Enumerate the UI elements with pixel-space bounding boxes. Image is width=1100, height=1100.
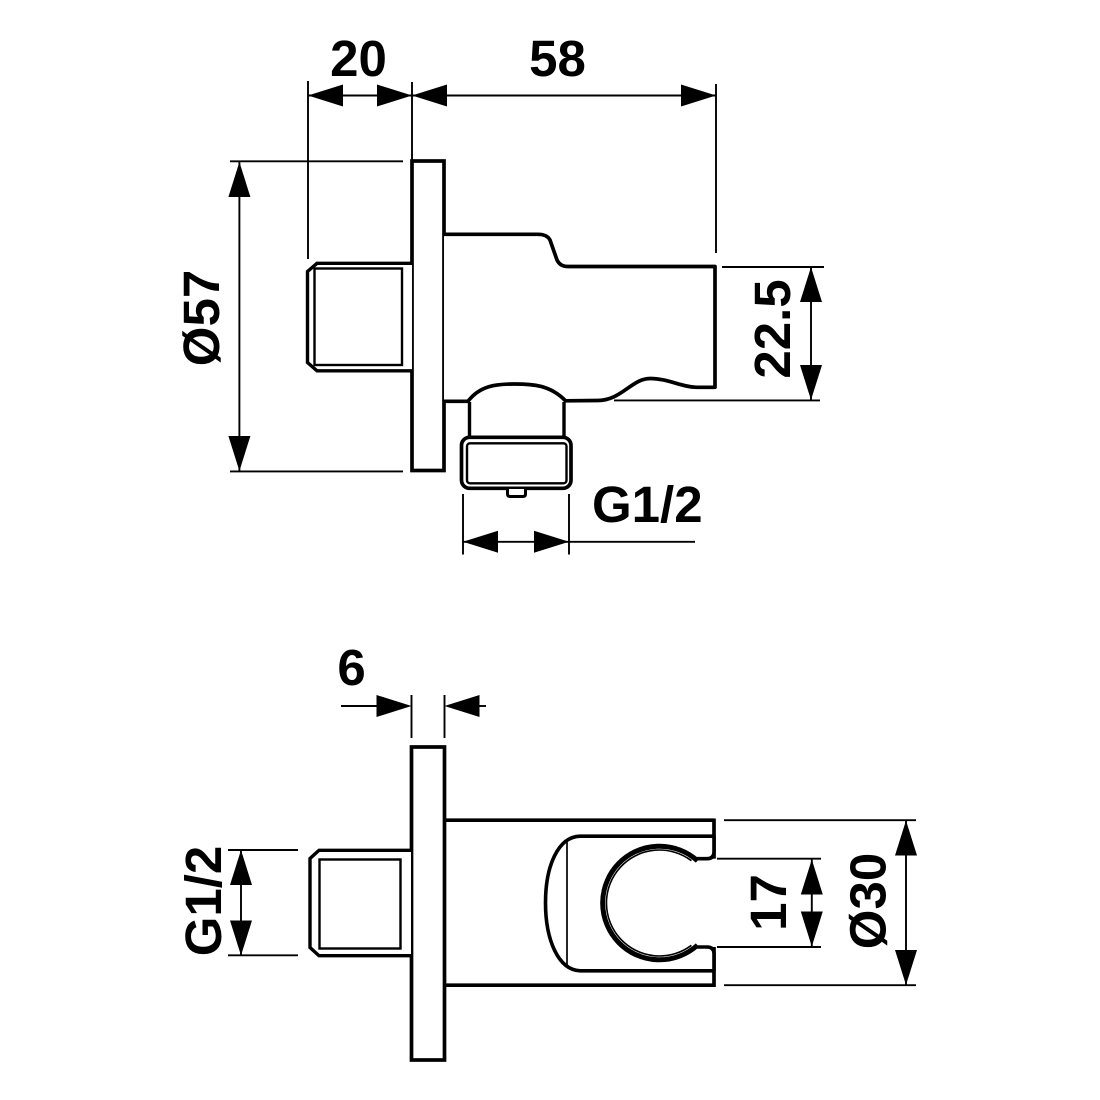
extension line left of 20 [307, 81, 309, 259]
wall plate side view [412, 161, 444, 471]
outlet nut inner [467, 443, 567, 483]
outlet boss left side [468, 402, 471, 437]
outlet nipple [508, 489, 526, 497]
wall plate front view [412, 747, 445, 1060]
extension line bottom of plate [230, 470, 403, 472]
holder back cap facet line [566, 842, 568, 965]
threaded inlet spigot front view outer [310, 850, 411, 955]
extension line left of plate [411, 695, 413, 738]
dimension G1/2 line bottom view [240, 850, 242, 956]
svg-text:G1/2: G1/2 [592, 476, 703, 533]
svg-text:Ø30: Ø30 [840, 853, 897, 949]
extension line top of plate [230, 160, 403, 162]
dimension 22.5 line [810, 267, 812, 400]
extension line bottom of 22.5 [614, 399, 820, 401]
svg-text:58: 58 [529, 30, 586, 87]
extension line bottom of holder gap [717, 946, 821, 948]
extension line left of outlet nut [462, 494, 464, 555]
extension line bottom of body [724, 984, 916, 986]
svg-text:22.5: 22.5 [744, 279, 801, 378]
holder fork outline [546, 836, 715, 971]
svg-text:G1/2: G1/2 [175, 846, 232, 957]
extension line bottom of spigot [228, 954, 298, 956]
cradle C ring inner line [606, 850, 691, 956]
extension line at wall plate face [411, 82, 413, 160]
threaded inlet spigot front view thread root [320, 860, 401, 949]
extension line right of outlet nut [568, 494, 570, 555]
extension line top of holder gap [717, 858, 821, 860]
svg-text:Ø57: Ø57 [173, 270, 230, 366]
cradle C ring outer [603, 846, 698, 960]
dimension 6 line right tail [480, 705, 487, 707]
outlet nut outer [462, 437, 572, 488]
holder body front view bottom edge [445, 983, 714, 987]
dimension &#216;57 line [238, 162, 240, 471]
dimension 6 line left tail [341, 705, 377, 707]
dimension G1/2 line [463, 541, 695, 543]
dimension &#216;30 line [905, 821, 907, 986]
extension line right of plate [444, 695, 446, 738]
svg-text:17: 17 [740, 874, 797, 931]
holder body front view right edge lower [712, 947, 716, 987]
extension line right of 58 [715, 84, 717, 253]
extension line top of body [724, 819, 916, 821]
dimension 17 line [811, 860, 813, 947]
dimension 58 line [412, 95, 716, 97]
dimension 20 line [308, 95, 412, 97]
svg-text:6: 6 [337, 639, 365, 696]
threaded inlet spigot side view thread root [315, 269, 403, 366]
holder body front view right edge upper [712, 819, 716, 859]
extension line top of 22.5 [722, 266, 824, 268]
holder body front view top edge [445, 818, 714, 822]
extension line top of spigot [228, 849, 298, 851]
outlet boss right side [562, 402, 565, 437]
holder body side view outline [444, 234, 715, 401]
threaded inlet spigot side view outer [308, 263, 413, 371]
svg-text:20: 20 [330, 30, 387, 87]
